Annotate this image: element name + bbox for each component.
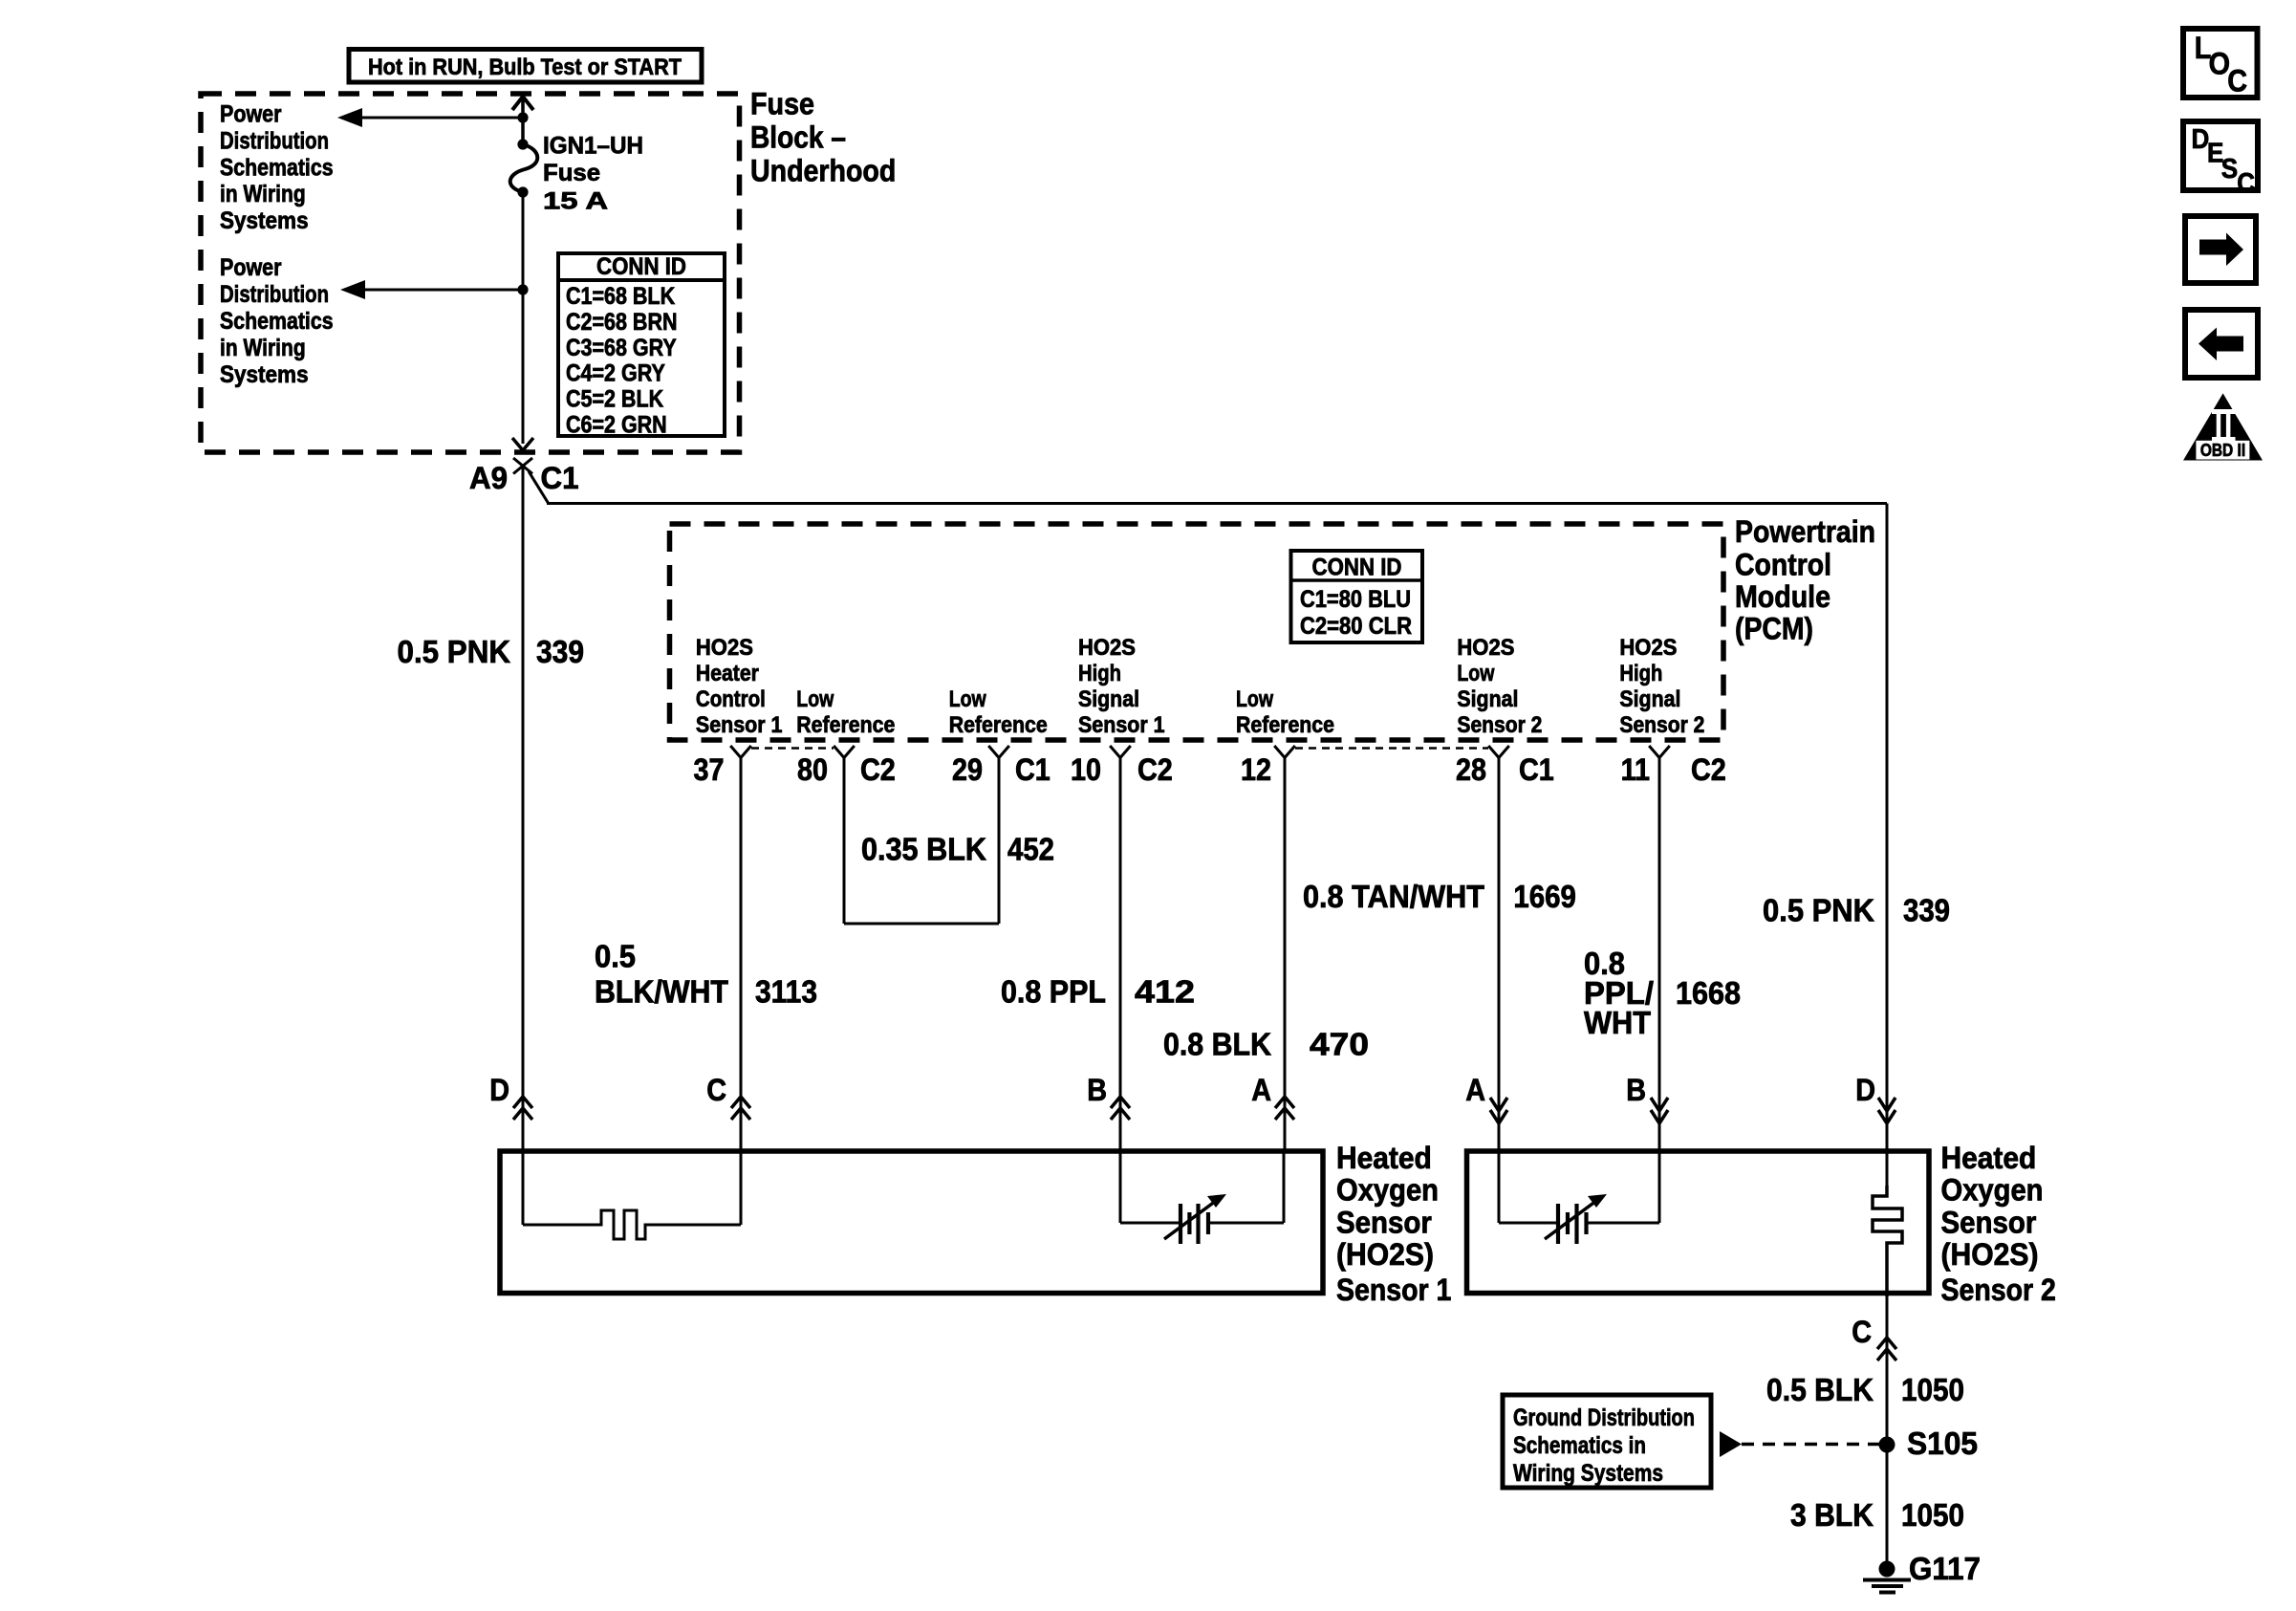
svg-text:Powertrain: Powertrain [1735,514,1875,549]
svg-text:Distribution: Distribution [220,281,329,308]
svg-text:OBD II: OBD II [2200,441,2245,460]
svg-text:C1: C1 [1015,752,1051,787]
svg-text:15 A: 15 A [543,188,608,215]
svg-text:Heater: Heater [696,661,759,686]
svg-text:CONN ID: CONN ID [1312,555,1402,581]
svg-text:C1: C1 [1519,752,1554,787]
svg-text:339: 339 [536,634,584,669]
svg-text:C2=68 BRN: C2=68 BRN [566,309,678,336]
svg-text:D: D [489,1073,509,1107]
svg-text:in Wiring: in Wiring [220,335,306,361]
svg-text:0.5 BLK: 0.5 BLK [1766,1372,1874,1407]
svg-text:Systems: Systems [220,361,309,388]
svg-text:Heated: Heated [1336,1141,1432,1175]
svg-text:Sensor 1: Sensor 1 [1336,1273,1451,1307]
svg-text:High: High [1619,661,1662,686]
svg-text:Low: Low [796,686,834,712]
svg-text:Block –: Block – [750,120,846,155]
svg-text:BLK/WHT: BLK/WHT [595,974,728,1010]
svg-text:1668: 1668 [1676,975,1741,1011]
svg-text:Low: Low [1457,661,1494,686]
svg-text:Power: Power [220,101,282,128]
svg-text:Control: Control [1735,548,1831,582]
svg-text:Reference: Reference [796,712,895,738]
svg-text:HO2S: HO2S [696,635,753,661]
svg-text:C5=2 BLK: C5=2 BLK [566,386,663,413]
svg-text:Heated: Heated [1941,1141,2037,1175]
svg-text:C2: C2 [1691,752,1726,787]
svg-text:C2: C2 [860,752,896,787]
svg-text:Reference: Reference [1236,712,1334,738]
svg-text:(PCM): (PCM) [1735,612,1813,646]
svg-text:Distribution: Distribution [220,127,329,154]
svg-text:0.8 BLK: 0.8 BLK [1163,1027,1271,1062]
svg-text:S105: S105 [1907,1426,1978,1461]
svg-text:Underhood: Underhood [750,154,896,188]
svg-text:Signal: Signal [1078,686,1139,712]
svg-text:Wiring Systems: Wiring Systems [1513,1460,1663,1487]
svg-text:S: S [2221,154,2238,185]
svg-text:Signal: Signal [1457,686,1518,712]
svg-text:A: A [1251,1073,1271,1107]
svg-text:0.8 PPL: 0.8 PPL [1001,974,1106,1010]
svg-text:452: 452 [1007,831,1054,866]
svg-text:Schematics: Schematics [220,308,334,335]
svg-text:Reference: Reference [949,712,1048,738]
svg-text:12: 12 [1241,752,1271,787]
svg-text:1050: 1050 [1901,1497,1964,1533]
svg-text:Schematics in: Schematics in [1513,1432,1646,1459]
svg-text:A: A [1465,1073,1485,1107]
svg-text:Fuse: Fuse [543,160,600,186]
svg-text:Sensor: Sensor [1941,1206,2037,1240]
svg-text:B: B [1626,1073,1646,1107]
svg-text:C: C [2227,64,2247,98]
svg-text:Sensor: Sensor [1336,1206,1432,1240]
svg-text:Hot in RUN, Bulb Test or START: Hot in RUN, Bulb Test or START [368,54,682,80]
svg-text:0.35 BLK: 0.35 BLK [861,831,986,866]
svg-text:(HO2S): (HO2S) [1336,1237,1434,1272]
svg-text:(HO2S): (HO2S) [1941,1237,2039,1272]
svg-text:Sensor 2: Sensor 2 [1457,712,1542,738]
svg-text:CONN ID: CONN ID [596,253,686,280]
svg-text:C3=68 GRY: C3=68 GRY [566,335,677,361]
svg-text:HO2S: HO2S [1619,635,1677,661]
svg-text:Low: Low [949,686,986,712]
svg-text:D: D [1855,1073,1875,1107]
svg-text:470: 470 [1310,1027,1369,1062]
svg-text:Module: Module [1735,579,1830,614]
svg-text:28: 28 [1456,752,1486,787]
svg-text:3 BLK: 3 BLK [1790,1497,1874,1533]
svg-text:Signal: Signal [1619,686,1680,712]
svg-text:C6=2 GRN: C6=2 GRN [566,412,667,439]
svg-text:Low: Low [1236,686,1273,712]
svg-text:Oxygen: Oxygen [1336,1173,1439,1208]
svg-text:29: 29 [952,752,983,787]
svg-text:Sensor 1: Sensor 1 [696,712,783,738]
svg-text:C: C [706,1073,726,1107]
svg-text:Schematics: Schematics [220,154,334,181]
svg-text:IGN1–UH: IGN1–UH [543,133,643,160]
svg-text:C2=80 CLR: C2=80 CLR [1300,613,1412,640]
svg-text:WHT: WHT [1584,1005,1651,1040]
svg-text:11: 11 [1621,752,1650,787]
svg-text:C1=68 BLK: C1=68 BLK [566,283,675,310]
svg-text:1050: 1050 [1901,1372,1964,1407]
svg-text:Systems: Systems [220,207,309,234]
svg-text:B: B [1087,1073,1107,1107]
svg-text:80: 80 [797,752,828,787]
svg-text:A9: A9 [469,461,508,495]
svg-text:Power: Power [220,254,282,281]
svg-text:Sensor 2: Sensor 2 [1619,712,1704,738]
svg-text:Ground Distribution: Ground Distribution [1513,1404,1695,1431]
svg-text:0.5: 0.5 [595,939,636,974]
svg-text:in Wiring: in Wiring [220,181,306,207]
svg-text:412: 412 [1135,974,1195,1010]
svg-text:C1: C1 [541,461,579,495]
svg-text:High: High [1078,661,1121,686]
svg-text:C1=80 BLU: C1=80 BLU [1300,586,1411,613]
svg-text:C: C [1852,1315,1872,1349]
svg-text:G117: G117 [1909,1551,1981,1586]
svg-text:37: 37 [694,752,725,787]
svg-text:3113: 3113 [755,974,817,1010]
svg-text:10: 10 [1071,752,1101,787]
svg-text:Sensor 2: Sensor 2 [1941,1273,2056,1307]
svg-text:Oxygen: Oxygen [1941,1173,2044,1208]
svg-text:C: C [2237,168,2255,199]
svg-text:C4=2 GRY: C4=2 GRY [566,360,665,387]
svg-text:HO2S: HO2S [1457,635,1514,661]
svg-text:Sensor 1: Sensor 1 [1078,712,1165,738]
svg-text:0.5 PNK: 0.5 PNK [1763,893,1874,928]
svg-text:0.5 PNK: 0.5 PNK [398,634,511,669]
svg-text:C2: C2 [1137,752,1173,787]
svg-text:0.8 TAN/WHT: 0.8 TAN/WHT [1303,879,1484,914]
svg-text:Control: Control [696,686,766,712]
svg-text:HO2S: HO2S [1078,635,1136,661]
svg-text:1669: 1669 [1513,879,1576,914]
svg-text:339: 339 [1903,893,1950,928]
svg-text:Fuse: Fuse [750,87,814,121]
